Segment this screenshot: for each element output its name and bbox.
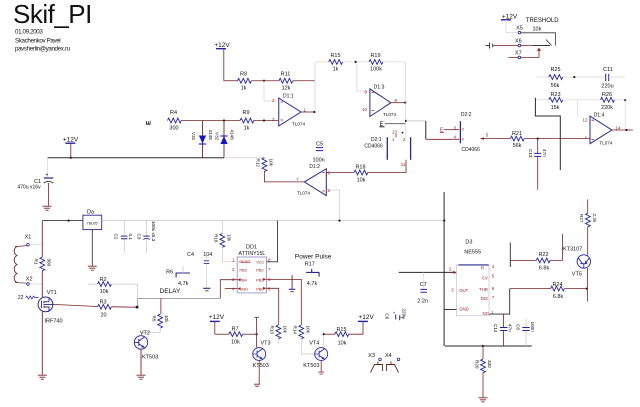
wire D2:2 out arrow [480,133,510,141]
coil leads [15,246,27,284]
wire DA out rail [102,220,445,222]
svg-text:C7: C7 [420,282,427,288]
connector X7 [515,51,522,59]
svg-text:TL074: TL074 [383,112,396,117]
svg-text:X4: X4 [385,353,392,359]
resistor R21 [510,131,524,149]
svg-text:R13: R13 [270,326,275,335]
headphones symbol [371,362,399,373]
wire D1:4 output [612,125,633,131]
svg-text:220u: 220u [402,309,407,320]
node dot rail-444 [443,220,445,222]
svg-text:15k: 15k [551,105,560,111]
resistor R8 [238,72,252,92]
capacitor C11 [601,67,625,90]
capacitor C14 [493,314,512,346]
svg-text:DIS: DIS [481,296,488,301]
svg-text:14: 14 [615,125,621,130]
svg-text:R20: R20 [474,360,479,369]
svg-text:TRESHOLD: TRESHOLD [526,18,559,24]
resistor R12 vertical [256,158,274,172]
svg-text:56k: 56k [551,83,560,89]
power +12V left [63,137,79,144]
op-amp D1:3 [362,84,398,117]
ground under VT1 [38,375,47,379]
wire vertical E bus [405,103,407,138]
svg-text:D1:4: D1:4 [594,112,605,118]
svg-text:R16: R16 [214,234,219,243]
ground near R17 [289,275,295,292]
svg-text:KT503: KT503 [253,363,269,369]
svg-text:VT2: VT2 [140,331,150,337]
wire VT4 collector riser [323,334,325,347]
svg-text:22: 22 [18,295,24,301]
ground under C1 [43,206,52,210]
timer D3 NE555 [451,240,495,317]
wire DD1 pin5 [266,288,278,325]
connector X3 [368,353,381,361]
connector X5 [516,25,523,34]
wire faint from node to pin2 [264,81,277,101]
wire R12 to D1:2 out [264,171,304,182]
connector X1 [25,235,43,246]
connector X6 [515,38,522,46]
transistor VT4 KT503 [303,341,327,374]
wire VT3 base riser + tick [255,317,259,347]
svg-text:TL074: TL074 [292,122,305,127]
svg-text:10k: 10k [100,289,109,295]
wire VCC riser to DD1 pin8 [266,221,277,262]
node dot VT3 base [256,333,258,335]
svg-text:CV: CV [482,275,488,280]
node dot output D1:1 [313,111,315,113]
svg-text:VCC: VCC [256,259,264,264]
node junction R5 [160,299,162,315]
ground rail bottom right [445,345,532,347]
svg-text:CD4066: CD4066 [364,144,383,150]
analog switch D2:2 CD4066 [426,112,480,153]
node dot R9 right [263,119,265,121]
svg-text:R6: R6 [166,269,173,275]
regulator DA box [83,210,102,230]
svg-text:11: 11 [401,162,406,167]
svg-text:4148: 4148 [230,130,235,141]
wire R5 to VT2 [141,328,160,336]
wire black L bus [535,98,560,170]
svg-text:220u: 220u [601,84,613,90]
svg-text:100k: 100k [370,67,382,73]
svg-text:1k: 1k [244,126,250,132]
resistor R1 vertical [34,257,52,271]
svg-text:4,7k: 4,7k [307,281,318,287]
wire R27 top [587,199,589,213]
resistor R15b [335,327,349,347]
svg-text:pavsherlin@yandex.ru: pavsherlin@yandex.ru [15,46,71,53]
svg-text:OUT: OUT [459,288,468,293]
svg-text:VT5: VT5 [572,271,582,277]
svg-text:TL074: TL074 [599,140,612,145]
wire X7 row [508,57,539,59]
resistor R19 [369,53,383,73]
svg-text:10k: 10k [231,340,240,346]
wire faint to pin9 [357,62,370,91]
svg-text:R21: R21 [512,131,522,137]
svg-text:DELAY: DELAY [160,288,181,295]
svg-text:D1:1: D1:1 [283,94,294,100]
transistor VT5 KT3107 [563,246,591,277]
svg-text:X1: X1 [25,235,32,241]
svg-text:56k: 56k [513,143,522,149]
svg-text:13k: 13k [226,234,231,242]
node dot W1 [263,80,265,82]
ground under DA [88,266,97,270]
svg-text:NE555: NE555 [464,250,481,256]
wire faint R15 riser [314,62,316,80]
wire R3 right [111,306,136,308]
rail 12V to DA [42,220,83,222]
svg-text:47n: 47n [542,149,547,157]
resistor R27 vertical [579,213,597,227]
svg-text:100n: 100n [313,158,325,164]
svg-text:C8: C8 [516,324,521,330]
svg-text:R2: R2 [99,277,106,283]
wire R15b to +12V [349,322,363,335]
svg-text:330: 330 [487,360,492,368]
wire R15 left [315,61,329,63]
svg-text:10k: 10k [357,177,366,183]
wire delay row [138,299,221,306]
wire long vertical to 555 [443,192,445,346]
wire R19 right [383,61,405,63]
wire R9 to pin3 [254,120,278,122]
svg-text:R23: R23 [550,92,560,98]
svg-text:6.8k: 6.8k [539,265,550,271]
resistor R23 [536,92,601,111]
svg-text:47n: 47n [507,324,512,332]
svg-text:R8: R8 [240,72,247,78]
svg-text:ATTINY15L: ATTINY15L [239,251,266,257]
svg-text:X3: X3 [368,353,375,359]
resistor R4 [168,110,182,132]
resistor R24 [510,282,587,300]
search coil [14,247,17,283]
resistor R3 [98,299,112,318]
wire VT2 emitter [140,349,142,375]
svg-text:V32: V32 [215,132,220,141]
svg-text:+12V: +12V [214,42,230,49]
node dot E [405,120,407,122]
capacitor C13 [528,139,547,190]
svg-text:D1:2: D1:2 [309,164,320,170]
wire 555 gnd left [444,309,456,311]
node dot C13 [537,138,539,140]
node dot R25-C11 [573,76,575,78]
svg-text:+12V: +12V [63,137,79,144]
svg-text:300: 300 [169,126,178,132]
transistor VT2 KT503 [134,331,158,361]
node dot R26 [624,99,626,101]
node dot D1:3 out [404,102,406,104]
capacitor C3 [137,221,157,253]
wire R4 to diodes [181,120,240,122]
wire D1:2 pin5 to rail [330,190,340,221]
transistor VT3 KT503 [253,341,271,387]
svg-text:4148: 4148 [208,130,213,141]
svg-text:2.2n: 2.2n [417,298,428,304]
wire to R15b [324,333,335,335]
node dot rail [70,157,72,159]
svg-text:R25: R25 [550,67,560,73]
wire DA gnd stub [91,230,93,266]
wire +12V left stub [70,143,72,158]
svg-text:THR: THR [479,287,488,292]
svg-text:NC: NC [482,311,488,316]
svg-text:VT4: VT4 [309,341,319,347]
op-amp D1:4 [582,112,612,145]
svg-text:104: 104 [203,252,212,258]
svg-text:CD4066: CD4066 [462,147,481,153]
wire VT1 drain up done / source down [41,312,43,375]
node dot pin5 rail [338,220,340,222]
wire faint riser to D1:1 output [314,81,316,112]
svg-text:Skif_PI: Skif_PI [13,0,92,29]
svg-text:C14: C14 [493,324,498,333]
svg-text:R3: R3 [99,299,106,305]
node dot R15-R19 [355,61,357,63]
svg-text:20: 20 [100,313,106,319]
arrow into 555 [451,271,455,274]
wire R18 right riser [368,160,406,173]
wire X6 row [493,45,532,47]
wire R8-R11 [251,80,279,82]
svg-text:PB4: PB4 [239,278,247,283]
svg-text:KT503: KT503 [303,363,319,369]
svg-text:2.2k: 2.2k [592,214,597,223]
wire D1:3 output [391,102,405,104]
DD1 pin arrows [237,278,240,290]
svg-text:470u x16v: 470u x16v [18,185,42,191]
svg-text:VT1: VT1 [47,290,57,296]
svg-text:X2: X2 [26,276,33,282]
svg-text:R11: R11 [281,72,291,78]
wire R27 to VT5 [587,226,589,255]
node dot VT5 emitter [586,288,588,290]
diode V32 [215,121,235,158]
capacitor C8 [516,319,535,346]
svg-text:KT3107: KT3107 [563,246,582,252]
svg-text:C11: C11 [603,67,613,73]
svg-text:R18: R18 [355,164,365,170]
trimmer R17 [305,262,320,287]
capacitor C1 electrolytic [18,158,54,206]
svg-text:10k: 10k [269,159,274,167]
analog switch D2:1 CD4066 [364,129,410,167]
power +12V top [214,42,230,49]
wire DD1 pin3 [220,280,237,299]
wire X5 to pot top [521,33,556,46]
svg-text:R4: R4 [170,110,177,116]
svg-text:IRF740: IRF740 [45,319,63,325]
svg-text:1k: 1k [241,86,247,92]
wire faint feedback risers [577,100,625,130]
power +12V bottom [358,314,375,322]
wire R11 right [293,80,315,82]
diode V31 [191,121,213,158]
svg-text:220k: 220k [601,105,613,111]
svg-text:R22: R22 [538,252,548,258]
svg-text:R15: R15 [330,53,340,59]
wire VT5 emitter down [586,268,588,302]
svg-text:C3: C3 [137,234,142,240]
ground under R20 [479,398,488,402]
wire 555 pin4 riser [509,243,511,268]
svg-text:VT3: VT3 [261,341,271,347]
svg-text:100n: 100n [530,322,535,333]
svg-text:R: R [481,266,484,271]
capacitor C4 [187,252,212,291]
svg-text:6.8k: 6.8k [553,294,564,300]
resistor gate 22 [18,295,39,301]
svg-text:GND: GND [459,306,469,311]
svg-text:10k: 10k [305,326,310,334]
resistor R18 [354,164,368,183]
svg-text:12k: 12k [282,86,291,92]
svg-text:C5: C5 [316,142,323,148]
resistor R11 [279,72,293,92]
svg-text:10: 10 [362,107,368,112]
svg-text:X5: X5 [516,25,523,31]
svg-text:R19: R19 [370,53,380,59]
mcu DD1 ATTINY15L [232,244,271,293]
svg-text:R1: R1 [34,259,39,265]
wire D1:1 output [301,111,314,113]
op-amp D1:2 mirrored [296,164,330,196]
svg-text:1k: 1k [333,67,339,73]
node dot rail [482,345,484,347]
node dot V32 top [223,119,225,121]
svg-text:R15: R15 [336,327,346,333]
svg-text:0.1: 0.1 [128,234,133,241]
wire 12V to X5 [506,20,518,33]
svg-text:R5: R5 [152,316,157,322]
svg-text:300: 300 [47,259,52,267]
node square R3 [136,306,139,309]
svg-text:Skachenkov Pavel: Skachenkov Pavel [15,38,60,45]
wire R18 row left [326,172,354,174]
resistor R20 vertical [474,346,492,397]
connector X2 [26,276,43,285]
net label E near D1:3 [379,122,405,128]
capacitor C5 [313,142,325,164]
capacitor C7 [417,272,428,304]
svg-text:01.09.2003: 01.09.2003 [15,29,43,36]
capacitor C2 [114,221,134,253]
op-amp D1:1 [272,94,307,127]
svg-text:DD1: DD1 [246,244,257,250]
svg-text:R9: R9 [242,110,249,116]
wire DD1 pin6 [266,279,301,325]
trimmer R6 [166,266,190,287]
svg-text:+12V: +12V [209,314,225,321]
svg-text:V31: V31 [191,132,196,141]
svg-text:E: E [146,120,153,125]
svg-text:12: 12 [582,117,588,122]
svg-text:Da: Da [87,210,95,216]
resistor R7 [215,327,257,346]
svg-text:4,7k: 4,7k [178,281,189,287]
svg-text:100u x6.3: 100u x6.3 [151,221,156,242]
resistor R22 [510,234,562,271]
svg-text:R26: R26 [602,92,612,98]
svg-text:10k: 10k [164,315,169,323]
svg-text:R14: R14 [293,326,298,335]
svg-text:R17: R17 [305,262,315,268]
resistor R14 vertical [293,325,315,354]
svg-text:X7: X7 [515,51,522,57]
battery symbol [486,43,493,49]
capacitor C6 electrolytic [385,309,407,321]
svg-text:GND: GND [239,287,248,292]
resistor R25 [536,67,605,89]
resistor R5 vertical [152,314,170,328]
resistor R13 vertical [270,325,288,344]
power +12V near R7 [209,314,225,334]
connector X4 [385,353,400,361]
resistor R9 [240,110,254,132]
svg-text:+12V: +12V [359,314,375,321]
svg-text:D2:2: D2:2 [461,112,472,118]
svg-text:R7: R7 [231,327,238,333]
svg-text:78L05: 78L05 [87,221,99,226]
resistor R16 vertical [214,221,238,262]
svg-text:10k: 10k [533,27,542,33]
svg-text:C6: C6 [385,313,390,319]
node dot before DA [68,220,70,222]
svg-text:10k: 10k [338,341,347,347]
svg-text:D1:3: D1:3 [374,84,385,90]
svg-text:X6: X6 [515,38,522,44]
node dot VT4 collector [323,333,325,335]
wire faint rail extension to R12 [224,157,264,159]
svg-text:D2:1: D2:1 [371,137,382,143]
wire W1 left [224,80,238,82]
wire E to D2:2 [406,120,426,122]
svg-text:R24: R24 [552,282,562,288]
ground under VT2 [137,375,146,379]
wire X1 column [41,221,43,257]
wire VT1 gate row [53,304,98,306]
wire +12V stub down [223,49,225,81]
resistor R2 [88,277,138,299]
wire 555 pin1 bottom right [489,289,510,315]
svg-text:RESET: RESET [239,260,251,264]
svg-text:PB3: PB3 [239,268,247,273]
wire R21 to D1:4 [524,138,590,140]
svg-text:Power Pulse: Power Pulse [295,253,332,260]
svg-text:D3: D3 [465,240,472,246]
power +12V treshold [501,13,518,20]
svg-text:R27: R27 [579,214,584,223]
wire main rail y158 [48,157,225,159]
potentiometer TRESHOLD body [533,40,552,58]
svg-text:R12: R12 [256,159,261,168]
svg-text:KT503: KT503 [142,355,158,361]
svg-text:C4: C4 [187,252,194,258]
svg-text:10k: 10k [282,326,287,334]
resistor R26 [601,92,626,111]
transistor VT1 IRF740 [38,290,62,325]
wire R15-R19 [343,61,369,63]
